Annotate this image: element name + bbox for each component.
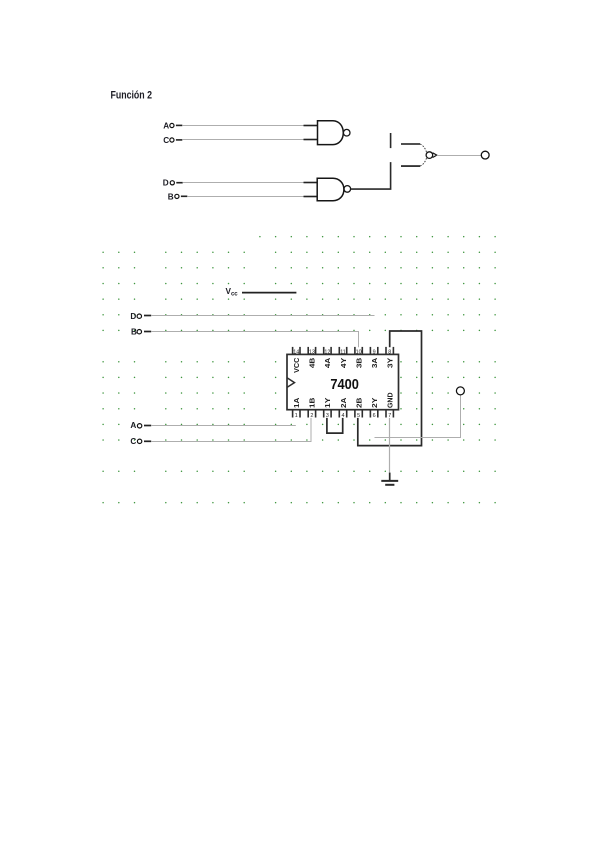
output terminal F: [481, 151, 489, 159]
pin 12 (top) label 4A: [324, 347, 333, 368]
node B (lower input terminal): [131, 328, 151, 337]
wire U2 output to U3: [351, 162, 391, 189]
svg-text:Función 2: Función 2: [111, 90, 153, 102]
pin 5 (bottom) label 2B: [355, 398, 364, 419]
svg-text:B: B: [131, 328, 137, 337]
svg-text:1Y: 1Y: [325, 397, 332, 408]
svg-text:3B: 3B: [356, 358, 363, 368]
wire D to U2 input 1: [183, 182, 318, 184]
svg-text:5: 5: [357, 413, 360, 419]
svg-text:1: 1: [295, 413, 298, 419]
svg-text:14: 14: [293, 349, 299, 355]
pin 3 (bottom) label 1Y: [324, 397, 333, 419]
svg-text:4Y: 4Y: [341, 357, 348, 368]
wire C to U1 input 2: [182, 139, 317, 141]
svg-text:2: 2: [310, 413, 313, 419]
wire U3 output: [437, 155, 481, 157]
svg-text:9: 9: [373, 349, 376, 355]
svg-text:GND: GND: [388, 393, 395, 409]
svg-text:C: C: [130, 437, 136, 446]
svg-text:8: 8: [388, 349, 391, 355]
wire A toward pin 1: [151, 425, 296, 427]
pin 1 (bottom) label 1A: [293, 398, 302, 419]
pin 7 (bottom) label GND: [386, 393, 395, 419]
svg-text:C: C: [163, 136, 169, 145]
svg-text:3: 3: [326, 413, 329, 419]
wire B to U2 input 2: [187, 196, 317, 198]
svg-text:D: D: [163, 179, 169, 188]
ground: [381, 473, 398, 485]
wire D toward pin 9: [151, 315, 374, 317]
wire segment above gap (U3 back top): [390, 133, 392, 148]
node A (input terminal): [163, 121, 182, 130]
NAND gate U1: [318, 121, 351, 145]
svg-text:13: 13: [309, 349, 315, 355]
svg-text:4: 4: [342, 413, 345, 419]
wire pin 6 to output terminal: [375, 395, 461, 437]
svg-text:D: D: [130, 312, 136, 321]
svg-text:1A: 1A: [294, 398, 301, 408]
node D (input terminal): [163, 179, 183, 188]
pin 11 (top) label 4Y: [339, 347, 348, 368]
wire B to pin 10: [151, 332, 358, 348]
output terminal O: [456, 387, 464, 395]
NOR gate U3: [401, 144, 437, 166]
pin 10 (top) label 3B: [355, 347, 364, 368]
node C (input terminal): [163, 136, 182, 145]
svg-text:4A: 4A: [325, 358, 332, 368]
svg-text:2B: 2B: [356, 398, 363, 408]
wire C to pin 2: [151, 418, 311, 442]
svg-text:7: 7: [388, 413, 391, 419]
svg-text:2A: 2A: [341, 398, 348, 408]
node C (lower input terminal): [130, 437, 151, 446]
svg-text:7400: 7400: [330, 376, 359, 393]
NAND gate U2: [317, 178, 350, 201]
node B (input terminal): [168, 192, 188, 201]
wire pin 8 to pin 5 loop: [358, 331, 422, 446]
pin 14 (top) label VCC: [293, 347, 302, 373]
wire Vcc: [242, 292, 296, 294]
node D (lower input terminal): [130, 312, 151, 321]
svg-text:B: B: [168, 192, 174, 201]
pin 4 (bottom) label 2A: [339, 398, 348, 419]
pin 9 (top) label 3A: [370, 347, 379, 368]
wire A to U1 input 1: [182, 125, 317, 127]
wire pin 3 to pin 4: [327, 418, 343, 433]
svg-text:VCC: VCC: [294, 358, 301, 373]
svg-text:A: A: [163, 121, 169, 130]
svg-text:10: 10: [356, 349, 362, 355]
pin 6 (bottom) label 2Y: [370, 397, 379, 419]
svg-text:6: 6: [373, 413, 376, 419]
pin 8 (top) label 3Y: [386, 347, 395, 368]
svg-text:3A: 3A: [372, 358, 379, 368]
svg-text:11: 11: [340, 349, 346, 355]
svg-text:2Y: 2Y: [372, 397, 379, 408]
pin 2 (bottom) label 1B: [308, 398, 317, 419]
svg-text:4B: 4B: [310, 358, 317, 368]
node A (lower input terminal): [130, 421, 151, 430]
IC U1 7400 body: [287, 354, 399, 409]
svg-text:3Y: 3Y: [388, 357, 395, 368]
svg-text:12: 12: [324, 349, 330, 355]
svg-text:1B: 1B: [310, 398, 317, 408]
pin 13 (top) label 4B: [308, 347, 317, 368]
wire pin 7 to ground: [389, 418, 391, 473]
svg-text:A: A: [130, 421, 136, 430]
svg-text:Vcc: Vcc: [226, 287, 239, 298]
